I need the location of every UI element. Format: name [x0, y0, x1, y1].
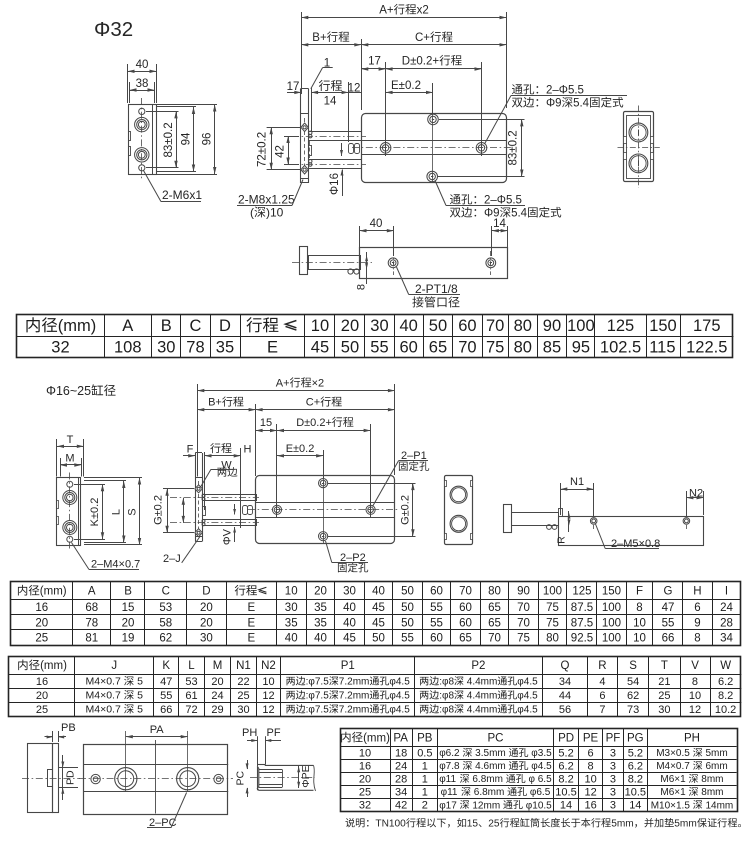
svg-text:7: 7	[599, 704, 605, 716]
svg-text::φ7.5: :φ7.5	[306, 691, 330, 702]
svg-text:60: 60	[400, 339, 418, 357]
svg-text:φ3.5: φ3.5	[529, 748, 553, 759]
svg-text:24: 24	[395, 761, 407, 773]
svg-text:45: 45	[372, 617, 385, 629]
svg-text:PG: PG	[627, 732, 644, 744]
svg-text:M: M	[213, 660, 223, 672]
svg-text:50: 50	[401, 602, 414, 614]
svg-text:8.2: 8.2	[628, 774, 643, 786]
svg-text:90: 90	[543, 317, 561, 335]
svg-text:φ 6.5: φ 6.5	[526, 774, 552, 785]
svg-text:20: 20	[341, 317, 359, 335]
svg-text:28: 28	[395, 774, 407, 786]
svg-text:T: T	[661, 660, 668, 672]
svg-text:4: 4	[599, 676, 605, 688]
svg-text:15: 15	[260, 417, 272, 429]
svg-text:Φ32: Φ32	[94, 18, 133, 41]
svg-text:7.2mm: 7.2mm	[339, 705, 370, 716]
svg-text:55: 55	[160, 690, 172, 702]
svg-text:5: 5	[134, 676, 143, 688]
svg-text:115: 115	[649, 339, 675, 357]
svg-text:40: 40	[285, 632, 298, 644]
svg-text:(mm): (mm)	[363, 732, 390, 744]
svg-text:45: 45	[343, 632, 356, 644]
svg-text:32: 32	[359, 800, 371, 812]
svg-text:PF: PF	[606, 732, 621, 744]
svg-text:25: 25	[35, 632, 48, 644]
svg-text:H: H	[693, 586, 701, 598]
svg-text:PE: PE	[583, 732, 599, 744]
svg-text:40: 40	[370, 218, 383, 230]
svg-text:55: 55	[430, 602, 443, 614]
svg-text:80: 80	[546, 632, 559, 644]
svg-text:45: 45	[372, 602, 385, 614]
svg-text:14: 14	[493, 218, 506, 230]
svg-text:3: 3	[610, 787, 616, 799]
svg-text:0.5: 0.5	[417, 747, 432, 759]
svg-text:108: 108	[114, 339, 142, 357]
svg-text:30: 30	[200, 632, 213, 644]
svg-text:10: 10	[285, 586, 298, 598]
svg-text:95: 95	[572, 339, 590, 357]
svg-text:ΦPE: ΦPE	[300, 765, 312, 787]
svg-text:G: G	[664, 586, 673, 598]
svg-text:62: 62	[627, 690, 639, 702]
svg-text:2-M8x1.25: 2-M8x1.25	[238, 193, 295, 207]
svg-text:75: 75	[546, 602, 559, 614]
svg-text:65: 65	[459, 632, 472, 644]
svg-text:83±0.2: 83±0.2	[163, 122, 175, 157]
svg-text:100: 100	[567, 317, 595, 335]
svg-text:30: 30	[237, 704, 249, 716]
svg-text:24: 24	[720, 602, 733, 614]
svg-text:20: 20	[314, 586, 327, 598]
svg-text::φ8: :φ8	[439, 705, 454, 716]
svg-text:16: 16	[35, 602, 48, 614]
svg-text:φ6.2: φ6.2	[439, 748, 462, 759]
svg-text:ΦV: ΦV	[222, 528, 234, 545]
svg-text:14: 14	[324, 95, 337, 107]
svg-text:E: E	[267, 339, 278, 357]
svg-text:6.8mm: 6.8mm	[471, 787, 507, 798]
svg-text:60: 60	[430, 632, 443, 644]
svg-text:7.2mm: 7.2mm	[339, 691, 370, 702]
svg-text:20: 20	[359, 774, 371, 786]
svg-text:40: 40	[136, 59, 149, 71]
svg-text:25: 25	[658, 690, 670, 702]
svg-text:L: L	[188, 660, 195, 672]
svg-text:6.2: 6.2	[718, 676, 733, 688]
svg-text:M4×0.7: M4×0.7	[86, 690, 124, 702]
svg-text:10: 10	[689, 690, 701, 702]
svg-text:5: 5	[134, 704, 143, 716]
svg-text:12: 12	[585, 787, 597, 799]
svg-text:75: 75	[517, 632, 530, 644]
svg-text:45: 45	[311, 339, 329, 357]
svg-text:80: 80	[514, 317, 532, 335]
svg-text:A+: A+	[379, 5, 394, 17]
svg-text:D±0.2+: D±0.2+	[402, 56, 440, 68]
svg-text:14: 14	[629, 800, 641, 812]
svg-text:72: 72	[185, 704, 197, 716]
svg-text:3: 3	[610, 747, 616, 759]
svg-text:60: 60	[459, 602, 472, 614]
svg-text:PA: PA	[150, 724, 165, 736]
svg-text:φ4.5: φ4.5	[517, 705, 538, 716]
svg-text:B: B	[161, 317, 172, 335]
svg-text:100: 100	[602, 632, 621, 644]
svg-text:12: 12	[262, 704, 274, 716]
svg-text:34: 34	[559, 676, 571, 688]
svg-text:25: 25	[237, 690, 249, 702]
svg-text:70: 70	[486, 317, 504, 335]
svg-text:68: 68	[85, 602, 98, 614]
svg-text:1: 1	[422, 774, 428, 786]
svg-text:N1: N1	[236, 660, 251, 672]
svg-text:34: 34	[395, 787, 407, 799]
svg-text:1: 1	[422, 761, 428, 773]
svg-text:14: 14	[560, 800, 572, 812]
svg-text:75: 75	[546, 617, 559, 629]
svg-text:25: 25	[36, 704, 48, 716]
svg-text:T: T	[67, 434, 74, 446]
svg-text:L: L	[111, 509, 123, 515]
svg-text:6mm: 6mm	[703, 761, 728, 772]
svg-text:28: 28	[720, 617, 733, 629]
svg-text:PD: PD	[65, 770, 77, 785]
svg-text:V: V	[691, 660, 699, 672]
svg-text:2–M4×0.7: 2–M4×0.7	[91, 559, 140, 571]
svg-text:2-M6x1: 2-M6x1	[162, 188, 202, 202]
svg-text:100: 100	[543, 586, 562, 598]
svg-text:35: 35	[314, 617, 327, 629]
svg-text:50: 50	[372, 632, 385, 644]
svg-text:55: 55	[662, 617, 675, 629]
svg-text::φ7.5: :φ7.5	[306, 677, 330, 688]
svg-text:K±0.2: K±0.2	[89, 498, 101, 527]
svg-text:M4×0.7: M4×0.7	[656, 761, 692, 772]
svg-text:40: 40	[400, 317, 418, 335]
svg-text:15: 15	[122, 602, 135, 614]
svg-text:R: R	[556, 536, 568, 544]
svg-text:D±0.2+: D±0.2+	[296, 417, 332, 429]
svg-text:)10: )10	[266, 206, 284, 220]
svg-text:12: 12	[348, 83, 361, 95]
svg-text:17: 17	[368, 56, 381, 68]
svg-text:PF: PF	[267, 727, 281, 739]
svg-text:5mm: 5mm	[703, 748, 728, 759]
svg-text:B+: B+	[208, 397, 222, 409]
svg-text:16: 16	[585, 800, 597, 812]
svg-text:TN100: TN100	[375, 819, 406, 830]
svg-text:10.5: 10.5	[625, 787, 646, 799]
svg-text:M6×1: M6×1	[660, 774, 688, 785]
svg-text:φ4.5: φ4.5	[389, 691, 410, 702]
svg-text:φ4.5: φ4.5	[529, 761, 553, 772]
svg-text:P2: P2	[471, 660, 485, 672]
svg-text:78: 78	[186, 339, 204, 357]
svg-text:8mm: 8mm	[699, 787, 724, 798]
svg-text:30: 30	[157, 339, 175, 357]
svg-text:102.5: 102.5	[600, 339, 641, 357]
svg-text:5: 5	[134, 690, 143, 702]
svg-text:54: 54	[627, 676, 639, 688]
svg-text:R: R	[598, 660, 606, 672]
svg-text:94: 94	[181, 132, 193, 145]
svg-text:29: 29	[211, 704, 223, 716]
svg-text:6.2: 6.2	[628, 761, 643, 773]
svg-text:12mm: 12mm	[470, 800, 503, 811]
svg-text:PA: PA	[393, 732, 408, 744]
svg-text:P1: P1	[341, 660, 355, 672]
svg-text:x2: x2	[417, 5, 429, 17]
svg-text:5.2: 5.2	[558, 747, 573, 759]
svg-text:70: 70	[488, 632, 501, 644]
svg-text:F: F	[187, 444, 194, 456]
svg-text:60: 60	[430, 586, 443, 598]
svg-text:D: D	[219, 317, 231, 335]
svg-text:25: 25	[488, 819, 500, 830]
svg-text:10.5: 10.5	[555, 787, 576, 799]
svg-text:47: 47	[662, 602, 675, 614]
svg-text:125: 125	[607, 317, 635, 335]
svg-text:φ4.5: φ4.5	[517, 677, 538, 688]
svg-text:92.5: 92.5	[571, 632, 593, 644]
svg-text:10: 10	[633, 617, 646, 629]
svg-text:15: 15	[467, 819, 479, 830]
svg-text:150: 150	[602, 586, 621, 598]
svg-text:9: 9	[694, 617, 700, 629]
svg-text:40: 40	[343, 617, 356, 629]
svg-text:8: 8	[588, 761, 594, 773]
svg-text:35: 35	[314, 602, 327, 614]
svg-text:30: 30	[658, 704, 670, 716]
svg-text:42: 42	[395, 800, 407, 812]
svg-text:20: 20	[211, 676, 223, 688]
svg-text:D: D	[202, 586, 210, 598]
svg-text:40: 40	[343, 602, 356, 614]
svg-text:96: 96	[202, 133, 214, 146]
svg-text:C: C	[190, 317, 202, 335]
svg-text:87.5: 87.5	[571, 602, 593, 614]
svg-text:(mm): (mm)	[40, 660, 67, 672]
svg-text:4.4mm: 4.4mm	[464, 705, 497, 716]
svg-text:20: 20	[200, 602, 213, 614]
svg-text:A: A	[88, 586, 96, 598]
svg-text:A+: A+	[276, 378, 290, 390]
svg-text:21: 21	[658, 676, 670, 688]
svg-text:35: 35	[216, 339, 234, 357]
svg-text:M4×0.7: M4×0.7	[86, 704, 124, 716]
svg-text:A: A	[122, 317, 133, 335]
svg-text:62: 62	[159, 632, 172, 644]
svg-text:175: 175	[693, 317, 721, 335]
svg-text:17: 17	[287, 81, 300, 93]
svg-text:73: 73	[627, 704, 639, 716]
svg-text:70: 70	[517, 617, 530, 629]
svg-text:87.5: 87.5	[571, 617, 593, 629]
svg-text:4.4mm: 4.4mm	[464, 677, 497, 688]
svg-text:(: (	[250, 206, 254, 220]
svg-text:N2: N2	[261, 660, 276, 672]
svg-text:4.4mm: 4.4mm	[464, 691, 497, 702]
svg-text:M: M	[65, 453, 74, 465]
svg-text:PH: PH	[684, 732, 700, 744]
svg-text:66: 66	[160, 704, 172, 716]
svg-text:12: 12	[689, 704, 701, 716]
svg-text:G±0.2: G±0.2	[400, 495, 412, 525]
svg-text:(mm): (mm)	[58, 317, 96, 335]
svg-text:PD: PD	[558, 732, 574, 744]
svg-text:7.2mm: 7.2mm	[339, 677, 370, 688]
svg-text:83±0.2: 83±0.2	[508, 130, 520, 165]
svg-text:35: 35	[285, 617, 298, 629]
svg-text:φ7.8: φ7.8	[439, 761, 462, 772]
svg-text:50: 50	[401, 586, 414, 598]
svg-text:PB: PB	[61, 722, 76, 734]
svg-text:Φ16~25: Φ16~25	[46, 384, 91, 398]
svg-text:125: 125	[572, 586, 591, 598]
svg-text:φ6.5: φ6.5	[527, 787, 551, 798]
svg-text:50: 50	[401, 617, 414, 629]
svg-text:2–J: 2–J	[163, 553, 181, 565]
svg-text:53: 53	[159, 602, 172, 614]
svg-text:12: 12	[262, 690, 274, 702]
svg-text:E: E	[248, 632, 256, 644]
svg-text:44: 44	[559, 690, 571, 702]
svg-text:Φ9: Φ9	[546, 98, 562, 110]
svg-text:60: 60	[459, 617, 472, 629]
svg-text:81: 81	[85, 632, 98, 644]
svg-text:53: 53	[185, 676, 197, 688]
svg-text:10: 10	[359, 747, 371, 759]
svg-text:10.2: 10.2	[715, 704, 736, 716]
svg-text:66: 66	[662, 632, 675, 644]
svg-text:55: 55	[401, 632, 414, 644]
svg-text:60: 60	[458, 317, 476, 335]
svg-text:19: 19	[122, 632, 135, 644]
svg-text:61: 61	[185, 690, 197, 702]
svg-text:S: S	[127, 508, 139, 515]
svg-text:85: 85	[543, 339, 561, 357]
svg-text:55: 55	[430, 617, 443, 629]
svg-text::φ8: :φ8	[439, 691, 454, 702]
svg-text:2–Φ5.5: 2–Φ5.5	[546, 85, 584, 97]
svg-text:3: 3	[610, 761, 616, 773]
svg-text:8: 8	[356, 284, 368, 290]
svg-text:8mm: 8mm	[699, 774, 724, 785]
svg-text:C: C	[162, 586, 170, 598]
svg-text:18: 18	[395, 747, 407, 759]
svg-text:2–Φ5.5: 2–Φ5.5	[484, 195, 522, 207]
svg-text:8: 8	[694, 632, 700, 644]
svg-text:8.2: 8.2	[718, 690, 733, 702]
svg-text:72±0.2: 72±0.2	[257, 132, 269, 167]
svg-text:M4×0.7: M4×0.7	[86, 676, 124, 688]
svg-text:50: 50	[429, 317, 447, 335]
svg-text:80: 80	[514, 339, 532, 357]
svg-text:PC: PC	[488, 732, 504, 744]
svg-text::φ7.5: :φ7.5	[306, 705, 330, 716]
svg-text:E±0.2: E±0.2	[286, 443, 315, 455]
svg-text:58: 58	[159, 617, 172, 629]
svg-text:6: 6	[599, 690, 605, 702]
svg-text:5mm: 5mm	[674, 819, 697, 830]
svg-text:10: 10	[262, 676, 274, 688]
svg-text:20: 20	[36, 690, 48, 702]
svg-text:40: 40	[372, 586, 385, 598]
svg-text:6: 6	[694, 602, 700, 614]
svg-text:5.2: 5.2	[628, 747, 643, 759]
svg-text:3: 3	[610, 800, 616, 812]
svg-text:32: 32	[51, 339, 69, 357]
svg-text:φ11: φ11	[439, 774, 459, 785]
svg-text:5.4: 5.4	[511, 208, 528, 220]
svg-text:80: 80	[488, 586, 501, 598]
svg-text:47: 47	[160, 676, 172, 688]
svg-text:φ17: φ17	[439, 800, 459, 811]
svg-text:55: 55	[370, 339, 388, 357]
svg-text:20: 20	[200, 617, 213, 629]
svg-text:F: F	[636, 586, 643, 598]
svg-text:M6×1: M6×1	[660, 787, 688, 798]
svg-text:22: 22	[237, 676, 249, 688]
svg-text:65: 65	[488, 602, 501, 614]
svg-text:M10×1.5: M10×1.5	[651, 800, 693, 811]
svg-text:Φ16: Φ16	[329, 173, 341, 195]
svg-text:4.6mm: 4.6mm	[472, 761, 508, 772]
svg-text:65: 65	[429, 339, 447, 357]
svg-text:70: 70	[459, 586, 472, 598]
svg-text:30: 30	[370, 317, 388, 335]
svg-text:I: I	[725, 586, 728, 598]
svg-text:16: 16	[359, 761, 371, 773]
svg-text:E: E	[248, 617, 256, 629]
svg-text:70: 70	[458, 339, 476, 357]
svg-text:42: 42	[275, 145, 287, 158]
svg-text:M3×0.5: M3×0.5	[656, 748, 692, 759]
svg-text:J: J	[111, 660, 117, 672]
svg-text:24: 24	[211, 690, 223, 702]
svg-text:100: 100	[602, 602, 621, 614]
svg-text:100: 100	[602, 617, 621, 629]
svg-text:14mm: 14mm	[703, 800, 734, 811]
svg-text:B+: B+	[312, 32, 327, 44]
svg-text:1: 1	[422, 787, 428, 799]
svg-text:16: 16	[36, 676, 48, 688]
svg-text:38: 38	[136, 78, 149, 90]
svg-text:50: 50	[341, 339, 359, 357]
svg-text:H: H	[244, 444, 252, 456]
svg-text:90: 90	[517, 586, 530, 598]
svg-text:φ11: φ11	[441, 787, 461, 798]
svg-text:PB: PB	[417, 732, 433, 744]
svg-text:40: 40	[314, 632, 327, 644]
svg-text:S: S	[629, 660, 637, 672]
svg-text:φ10.5: φ10.5	[523, 800, 552, 811]
svg-text:Q: Q	[561, 660, 570, 672]
svg-text:30: 30	[343, 586, 356, 598]
svg-text:K: K	[162, 660, 170, 672]
svg-text:20: 20	[35, 617, 48, 629]
svg-text:PH: PH	[242, 727, 257, 739]
svg-text:150: 150	[649, 317, 677, 335]
svg-text:5mm: 5mm	[611, 819, 634, 830]
svg-text:(mm): (mm)	[40, 586, 67, 598]
svg-text:C+: C+	[306, 397, 320, 409]
svg-text:W: W	[720, 660, 731, 672]
svg-text:2-PT1/8: 2-PT1/8	[415, 282, 458, 296]
